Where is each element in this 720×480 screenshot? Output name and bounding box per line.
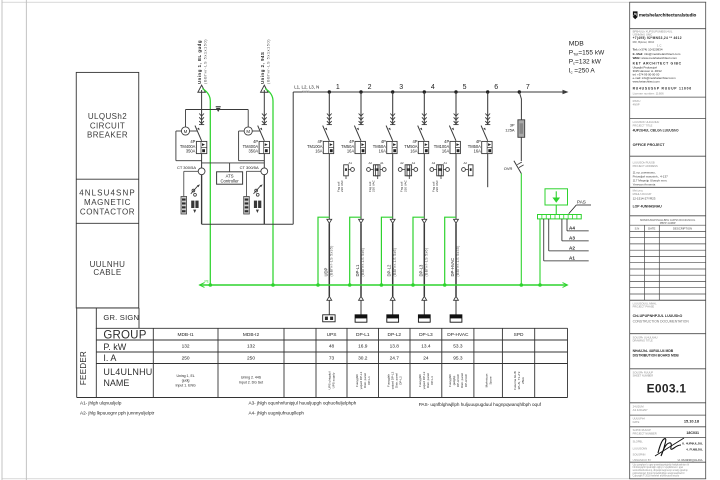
cable W4 transition arrow xyxy=(422,219,427,223)
svg-text:3: 3 xyxy=(399,84,403,91)
date row xyxy=(633,417,700,424)
load distribution panel DP-L1 symbol xyxy=(355,315,367,322)
svg-text:95.3: 95.3 xyxy=(453,355,463,361)
svg-text:4NLSU4SNP: 4NLSU4SNP xyxy=(79,189,136,198)
svg-text:CONSTRUCTION DOCUMENTATION: CONSTRUCTION DOCUMENTATION xyxy=(633,320,690,324)
junction feeder 2 on bus xyxy=(359,90,362,93)
svg-text:E003.1: E003.1 xyxy=(647,382,687,396)
wire to load 4 xyxy=(423,300,425,315)
svg-text:PROJECT ADDRESS: PROJECT ADDRESS xyxy=(633,164,658,168)
svg-text:13.4: 13.4 xyxy=(421,344,431,350)
svg-text:A4- jhlgh uugnijufnuuplleph: A4- jhlgh uugnijufnuuplleph xyxy=(249,411,305,416)
svg-text:(ВВГнг-LS 5x6): (ВВГнг-LS 5x6) xyxy=(393,248,397,277)
kWh meter PA2 xyxy=(244,171,261,214)
svg-text:Input 1. ENG: Input 1. ENG xyxy=(175,383,196,387)
wire breaker to contactor xyxy=(392,154,394,176)
svg-text:CABLE: CABLE xyxy=(93,268,121,277)
svg-text:7: 7 xyxy=(526,84,530,91)
junction feeder 7 on bus xyxy=(518,90,521,93)
svg-text:GROUP: GROUP xyxy=(103,330,146,342)
svg-text:DP-HVAC: DP-HVAC xyxy=(450,258,455,277)
svg-text:30.2: 30.2 xyxy=(358,355,368,361)
wire incomer 1 drop xyxy=(201,90,203,125)
node A2 equipotential tap xyxy=(549,219,589,251)
svg-text:73: 73 xyxy=(329,355,335,361)
svg-text:Uning 1, EL gudg: Uning 1, EL gudg xyxy=(197,40,202,84)
test switch / measuring tap SA2 xyxy=(254,184,263,213)
wire breaker to CT xyxy=(263,154,265,168)
svg-text:MAGNETIC: MAGNETIC xyxy=(84,198,131,207)
wire breaker to contactor xyxy=(360,154,362,176)
svg-text:1: 1 xyxy=(336,84,340,91)
PAS equipotential terminal strip xyxy=(538,215,582,219)
signature scrawl xyxy=(658,439,681,456)
circuit breaker QF2 4P TM50A 16A xyxy=(341,114,365,154)
svg-text:SOUSPNN: SOUSPNN xyxy=(633,452,646,456)
svg-text:RR, Bplowl, 0010: RR, Bplowl, 0010 xyxy=(633,40,655,44)
green PE wire from incomer 1 xyxy=(202,89,210,286)
svg-text:NHdUJhL 4URULU4 MDB: NHdUJhL 4URULU4 MDB xyxy=(633,349,674,353)
circuit breaker Q2 4P TM400A 350A motorized xyxy=(239,110,270,161)
kWh meter PA1 xyxy=(181,171,198,214)
cable W1 transition arrow xyxy=(327,219,332,223)
svg-text:I. A: I. A xyxy=(103,353,116,363)
junction green incomer 2 xyxy=(271,283,275,287)
svg-text:230 VAC: 230 VAC xyxy=(340,179,344,192)
svg-text:www.ketarchitect.com: www.ketarchitect.com xyxy=(633,80,661,84)
svg-text:metshelarchitecturalstudio: metshelarchitecturalstudio xyxy=(639,12,697,17)
svg-text:Ic =250 A: Ic =250 A xyxy=(569,68,596,75)
svg-text:A1- jhlgh ulqnuuljelp: A1- jhlgh ulqnuuljelp xyxy=(80,400,122,405)
incomer Q2 entry arrow xyxy=(261,85,268,92)
cable W4 end arrow xyxy=(422,296,427,300)
svg-text:CONTACTOR: CONTACTOR xyxy=(80,208,135,217)
svg-text:16A: 16A xyxy=(379,149,387,154)
svg-text:SHEET NUMBER: SHEET NUMBER xyxy=(633,374,654,378)
magnetic contactor K2 coil 230VAC xyxy=(336,161,378,192)
svg-text:SnPOh RUUUP: SnPOh RUUUP xyxy=(633,428,652,432)
svg-text:(ВВГнг-LS 5x35): (ВВГнг-LS 5x35) xyxy=(330,245,334,276)
svg-text:132: 132 xyxy=(247,344,255,350)
svg-text:UL4ULNHU: UL4ULNHU xyxy=(103,367,152,377)
svg-text:Copyright © 2018 metshel archi: Copyright © 2018 metshel architectural s… xyxy=(633,475,680,478)
wire contactor down xyxy=(455,176,457,219)
node MDB ratings label xyxy=(569,40,605,74)
svg-text:MNHLh RUUUP: MNHLh RUUUP xyxy=(633,192,652,196)
ATS controller U1 xyxy=(217,163,243,184)
svg-text:DP-L2: DP-L2 xyxy=(387,264,392,277)
green PE tap feeder 3 xyxy=(381,217,392,285)
cable W1 run xyxy=(328,223,330,296)
svg-text:DP-HVAC: DP-HVAC xyxy=(447,332,469,338)
svg-text:MDB: MDB xyxy=(569,40,585,47)
svg-text:350A: 350A xyxy=(186,149,196,154)
junction feeder 5 on bus xyxy=(454,90,457,93)
svg-text:Spare: Spare xyxy=(488,376,492,384)
svg-text:DP-L3: DP-L3 xyxy=(430,376,434,385)
current transformer CT1 300/5A xyxy=(177,165,205,175)
svg-text:A1: A1 xyxy=(412,161,416,165)
svg-text:A2- jhlg lkpuuognr pph junnnyu: A2- jhlg lkpuuognr pph junnnyuljelptr xyxy=(80,411,155,416)
svg-text:2: 2 xyxy=(368,84,372,91)
svg-text:MDB-I1: MDB-I1 xyxy=(177,332,194,338)
load UPS symbol xyxy=(323,315,335,322)
svg-text:230 VAC: 230 VAC xyxy=(372,179,376,192)
svg-text:A4: A4 xyxy=(569,226,575,231)
svg-text:UPS: UPS xyxy=(327,332,337,338)
svg-text:CIRCUIT: CIRCUIT xyxy=(90,121,125,130)
svg-text:125A: 125A xyxy=(505,128,515,133)
svg-text:PAS: PAS xyxy=(577,199,586,204)
svg-text:A2: A2 xyxy=(432,161,436,165)
svg-text:Uju qowqhpn lo qpw pnwwlqwynip: Uju qowqhpn lo qpw pnwwlqwynipjnilp hwlq… xyxy=(633,464,690,466)
svg-text:A3- jhlgh oqunhnfunipjul huuul: A3- jhlgh oqunhnfunipjul huuuljupgh oqhu… xyxy=(249,400,357,405)
wire to load 3 xyxy=(392,300,394,315)
svg-text:DISTRIBUTION BOARD MDB: DISTRIBUTION BOARD MDB xyxy=(633,354,680,358)
svg-text:Uning 2, 94S: Uning 2, 94S xyxy=(260,52,265,84)
svg-text:DP-L1: DP-L1 xyxy=(356,332,370,338)
junction feeder 4 on bus xyxy=(423,90,426,93)
cable W5 run xyxy=(455,223,457,296)
wire spare feeder stub xyxy=(487,154,489,188)
svg-text:A2: A2 xyxy=(463,161,467,165)
current transformer CT2 300/5A xyxy=(240,165,268,175)
svg-text:A1: A1 xyxy=(348,161,352,165)
svg-text:wwinobliwhwlnump, dbpwpinwqpnu: wwinobliwhwlnump, dbpwpinwqpnump wnwlg q… xyxy=(633,470,689,472)
wire to load 1 xyxy=(328,300,330,315)
green wire strip to PE bus xyxy=(539,219,541,285)
svg-text:UUUUPh4: UUUUPh4 xyxy=(633,417,646,421)
incomer Q1 entry arrow xyxy=(198,85,205,92)
svg-text:A2: A2 xyxy=(368,161,372,165)
svg-text:16A: 16A xyxy=(474,149,482,154)
svg-text:PAS- uqnfblghwjllph huljuuupug: PAS- uqnfblghwjllph huljuuupugduul hugnp… xyxy=(419,402,542,407)
svg-text:+7(495) 92*MNS3,24 ** 4612: +7(495) 92*MNS3,24 ** 4612 xyxy=(633,36,682,40)
ground electrode PAS symbol box xyxy=(545,189,568,205)
format section xyxy=(633,404,648,412)
junction feeder 6 on bus xyxy=(486,90,489,93)
fuse disconnect F7 3P 125A xyxy=(505,120,524,138)
svg-text:5: 5 xyxy=(463,84,467,91)
wire feeder 3 drop xyxy=(392,92,394,125)
node A4 equipotential tap xyxy=(567,219,589,231)
wire fuse to OVR xyxy=(520,137,522,161)
svg-text:230 VAC: 230 VAC xyxy=(403,179,407,192)
cable W3 transition arrow xyxy=(390,219,395,223)
svg-text:A1: A1 xyxy=(443,161,447,165)
svg-text:PE: PE xyxy=(205,280,209,284)
svg-text:24.7: 24.7 xyxy=(390,355,400,361)
project title section xyxy=(633,120,679,147)
svg-text:6: 6 xyxy=(494,84,498,91)
circuit breaker QF5 4P TM100A 16A xyxy=(434,114,461,154)
svg-text:4UP2U4UL CBLGh LUUUShO: 4UP2U4UL CBLGh LUUUShO xyxy=(633,129,679,133)
svg-text:PROJECT TITLE: PROJECT TITLE xyxy=(633,123,653,127)
green PE wire from OVR xyxy=(520,174,522,286)
svg-text:16A: 16A xyxy=(410,149,418,154)
wire breaker to contactor xyxy=(423,154,425,176)
circuit breaker Q1 4P TM400A 350A motorized xyxy=(176,110,207,161)
svg-text:DP-L2: DP-L2 xyxy=(387,332,401,338)
svg-text:4N9P: 4N9P xyxy=(633,103,640,107)
svg-text:DP-L2: DP-L2 xyxy=(399,376,403,385)
svg-text:(ВВГнг-LS 5x6): (ВВГнг-LS 5x6) xyxy=(361,248,365,277)
svg-text:(ВВГнг-LS 5x1x150): (ВВГнг-LS 5x1x150) xyxy=(265,39,270,84)
svg-text:SPD: SPD xyxy=(514,332,524,338)
cable W5 transition arrow xyxy=(454,219,459,223)
wire incomer 2 drop xyxy=(263,90,265,125)
svg-text:ChLUPUPNHPJUL LUUUShO: ChLUPUPNHPJUL LUUUShO xyxy=(633,314,683,318)
project number row xyxy=(633,428,699,435)
svg-text:CT 300/5A: CT 300/5A xyxy=(240,165,259,170)
svg-text:MDB-I2: MDB-I2 xyxy=(243,332,260,338)
svg-text:License number: 11606: License number: 11606 xyxy=(633,91,664,95)
svg-text:16A: 16A xyxy=(442,149,450,154)
magnetic contactor K3 coil 230VAC xyxy=(368,161,410,192)
wire feeder 1 drop xyxy=(328,92,330,125)
svg-text:U. 4UP9ULJUL: U. 4UP9ULJUL xyxy=(682,442,703,446)
wire to load 2 xyxy=(360,300,362,315)
svg-text:PBPP 4U4BP: PBPP 4U4BP xyxy=(660,221,676,225)
junction green incomer 1 xyxy=(209,283,213,287)
svg-text:DP-L1: DP-L1 xyxy=(367,376,371,385)
wire changeover output to main bus riser xyxy=(202,223,294,225)
svg-text:OFFICE PROJECT: OFFICE PROJECT xyxy=(633,143,666,147)
svg-text:250: 250 xyxy=(247,355,255,361)
circuit breaker QF4 4P TM50A 16A xyxy=(404,114,428,154)
svg-text:DP-L1: DP-L1 xyxy=(355,264,360,277)
svg-text:DRAWING TITLE: DRAWING TITLE xyxy=(633,339,653,343)
svg-text:13.8: 13.8 xyxy=(390,344,400,350)
signatures xyxy=(633,438,704,462)
surge arrester OVR xyxy=(504,161,524,174)
wire feeder 7 slant drop xyxy=(519,92,521,120)
mechanical interlock bar between incomers xyxy=(186,106,249,112)
node A1 equipotential tap xyxy=(544,219,589,261)
svg-text:A1: A1 xyxy=(380,161,384,165)
wire CT down to changeover node xyxy=(263,175,265,225)
svg-text:12-1514-27YR23: 12-1514-27YR23 xyxy=(633,197,656,201)
green PE tap feeder 1 xyxy=(318,217,329,285)
svg-text:15.10.18: 15.10.18 xyxy=(684,418,700,423)
wire CT down to changeover node xyxy=(201,175,203,225)
svg-text:LOP 4UNNHSNHU: LOP 4UNNHSNHU xyxy=(633,205,663,209)
cable W1 end arrow xyxy=(327,296,332,300)
svg-text:Uning 2. 44S: Uning 2. 44S xyxy=(241,376,262,380)
main bus L1,L2,L3,N xyxy=(293,85,568,95)
svg-text:WEB: www.metshelarchitect.com: WEB: www.metshelarchitect.com xyxy=(633,56,678,60)
svg-text:M: M xyxy=(246,129,250,134)
junction feeder 1 on bus xyxy=(328,90,331,93)
project phase section xyxy=(633,301,690,323)
svg-text:16.9: 16.9 xyxy=(358,344,368,350)
cable W3 end arrow xyxy=(390,296,395,300)
circuit breaker QF6 4P TM50A 16A xyxy=(468,114,492,154)
svg-text:DATE: DATE xyxy=(633,420,640,424)
wire to load 5 xyxy=(455,300,457,315)
wire feeder 5 drop xyxy=(455,92,457,125)
svg-text:132: 132 xyxy=(182,344,190,350)
svg-text:P. kW: P. kW xyxy=(103,342,126,352)
junction feeder 3 on bus xyxy=(391,90,394,93)
svg-text:4: 4 xyxy=(431,84,435,91)
svg-text:PROJECT NUMBER: PROJECT NUMBER xyxy=(633,431,657,435)
svg-text:24: 24 xyxy=(423,355,429,361)
circuit breaker QF3 4P TM50A 16A xyxy=(373,114,397,154)
svg-text:RU4USUShP RUUUP 11606: RU4USUShP RUUUP 11606 xyxy=(633,87,692,91)
svg-text:OVR: OVR xyxy=(504,166,513,171)
svg-text:A1: A1 xyxy=(569,256,575,261)
drawing title section xyxy=(633,335,680,357)
svg-text:Uning 1, EL: Uning 1, EL xyxy=(176,374,194,378)
svg-text:350A: 350A xyxy=(249,149,259,154)
svg-text:DP-L3: DP-L3 xyxy=(419,332,433,338)
svg-text:UPS supply: UPS supply xyxy=(332,372,336,388)
svg-text:250: 250 xyxy=(182,355,190,361)
wire PAS box to terminal strip xyxy=(555,205,557,215)
circuit breaker QF1 4P TM100A 16A xyxy=(307,114,334,154)
wire breaker down xyxy=(328,154,330,220)
svg-text:16A: 16A xyxy=(347,149,355,154)
svg-text:A3 420x297: A3 420x297 xyxy=(633,408,648,412)
magnetic contactor K5 coil 230VAC xyxy=(431,161,473,192)
svg-text:DATE: DATE xyxy=(648,227,655,231)
wire contactor down xyxy=(360,176,362,219)
title block frame xyxy=(630,2,706,479)
svg-text:Controller: Controller xyxy=(221,178,240,183)
svg-text:SLOPBL: SLOPBL xyxy=(633,439,644,443)
svg-text:U. RU4NFQULJUL: U. RU4NFQULJUL xyxy=(678,458,704,462)
svg-text:FEEDER: FEEDER xyxy=(79,351,88,385)
node PAS label xyxy=(569,199,591,213)
wire feeder 6 drop xyxy=(487,92,489,125)
svg-text:UDP: UDP xyxy=(323,267,328,276)
svg-text:pnijtindnipjwl: Fntnp hpwdnilg: pnijtindnipjwl: Fntnp hpwdnilglbpp wwgin… xyxy=(633,472,686,475)
green PE wire from incomer 2 xyxy=(265,89,273,286)
cable W4 run xyxy=(423,223,425,296)
magnetic contactor K4 coil 230VAC xyxy=(400,161,442,192)
wire feeder 4 drop xyxy=(423,92,425,125)
load distribution panel DP-L3 symbol xyxy=(418,315,430,322)
cable W5 end arrow xyxy=(454,296,459,300)
svg-text:Input 2. DG Set: Input 2. DG Set xyxy=(239,380,263,384)
svg-text:A2: A2 xyxy=(400,161,404,165)
svg-text:PROJECT PHASE: PROJECT PHASE xyxy=(633,305,655,309)
svg-text:hbnhlwywjhl hpwdnilgh opjbyn:: hbnhlwywjhl hpwdnilgh opjbyn: Upqbldnium… xyxy=(633,466,684,469)
svg-text:BREAKER: BREAKER xyxy=(87,131,128,140)
svg-text:25kA: 25kA xyxy=(521,377,525,384)
node A3 equipotential tap xyxy=(562,219,589,241)
svg-text:(ВВГнг-LS 5x1x150): (ВВГнг-LS 5x1x150) xyxy=(203,39,208,84)
svg-text:GR. SIGN: GR. SIGN xyxy=(103,313,139,322)
phase section xyxy=(633,189,663,209)
svg-text:M: M xyxy=(184,129,188,134)
svg-text:53.3: 53.3 xyxy=(453,344,463,350)
logo xyxy=(633,11,697,19)
svg-text:NAME: NAME xyxy=(103,378,129,388)
svg-text:DP-L3: DP-L3 xyxy=(418,264,423,277)
svg-text:(ВВГнг-LS 5x35): (ВВГнг-LS 5x35) xyxy=(456,245,460,276)
green PE tap feeder 4 xyxy=(413,217,424,285)
green PE tap feeder 2 xyxy=(350,217,361,285)
svg-text:230 VAC: 230 VAC xyxy=(435,179,439,192)
wire contactor down xyxy=(392,176,394,219)
svg-text:S.N: S.N xyxy=(635,227,640,231)
cable W2 end arrow xyxy=(359,296,364,300)
svg-text:USNHS4UO BY: USNHS4UO BY xyxy=(633,458,652,462)
title block contact info xyxy=(633,29,673,47)
project address section xyxy=(633,161,669,187)
wire feeder 2 drop xyxy=(360,92,362,125)
svg-text:(ВВГнг-LS 5x6): (ВВГнг-LS 5x6) xyxy=(425,248,429,277)
svg-text:Yerevan Armenia: Yerevan Armenia xyxy=(633,183,656,187)
cable W2 run xyxy=(360,223,362,296)
svg-text:A2: A2 xyxy=(569,246,575,251)
green PE tap feeder 5 xyxy=(445,217,456,285)
svg-text:CT 300/5A: CT 300/5A xyxy=(177,165,196,170)
revision table xyxy=(630,218,706,300)
load distribution panel DP-L2 symbol xyxy=(387,315,399,322)
schedule table xyxy=(76,308,567,398)
legend table (circuit breaker / contactor / cable rows) xyxy=(76,72,139,308)
sheet number section xyxy=(633,370,687,395)
load distribution panel DP-HVAC symbol xyxy=(450,315,462,322)
test switch / measuring tap SA1 xyxy=(191,184,200,213)
disclaimer xyxy=(633,464,690,477)
green PE bus xyxy=(200,280,568,288)
wire ATS sense link xyxy=(202,162,265,164)
svg-text:ULQUSh2: ULQUSh2 xyxy=(88,112,127,121)
wire breaker to contactor xyxy=(455,154,457,176)
svg-text:A3: A3 xyxy=(569,236,575,241)
svg-text:4. FU9BJUL: 4. FU9BJUL xyxy=(686,448,703,452)
cable W2 transition arrow xyxy=(359,219,364,223)
svg-text:DP-HVAC: DP-HVAC xyxy=(464,373,468,387)
svg-text:16A: 16A xyxy=(315,149,323,154)
wire contactor down xyxy=(423,176,425,219)
svg-text:DESCRIPTION: DESCRIPTION xyxy=(673,227,692,231)
svg-text:gudg: gudg xyxy=(182,379,190,383)
svg-text:SU2G: SU2G xyxy=(302,89,310,93)
svg-text:LUUUSONN: LUUUSONN xyxy=(633,446,648,450)
notes A1..A4, PAS xyxy=(80,400,542,415)
svg-text:18C031: 18C031 xyxy=(686,431,699,435)
wire breaker to CT xyxy=(201,154,203,168)
cable W3 run xyxy=(392,223,394,296)
svg-text:48: 48 xyxy=(329,344,335,350)
